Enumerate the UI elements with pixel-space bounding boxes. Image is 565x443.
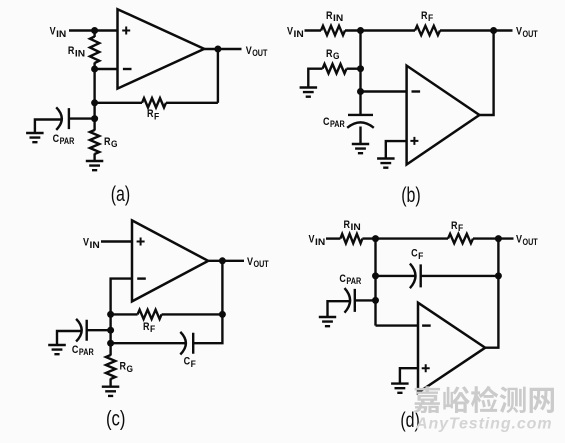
svg-text:AnyTesting.com: AnyTesting.com	[415, 416, 552, 433]
resistor RF (a)	[142, 98, 166, 107]
svg-text:VIN: VIN	[309, 234, 326, 247]
svg-text:RF: RF	[147, 108, 160, 121]
wire RIN bottom lead (a)	[93, 63, 95, 70]
wire RG right lead (b)	[347, 67, 361, 69]
svg-text:RIN: RIN	[344, 219, 361, 232]
wire left column (c)	[109, 314, 111, 343]
wire output (c)	[208, 260, 244, 262]
op-amp U1 (a)	[118, 9, 205, 88]
wire RF right lead (a)	[166, 102, 218, 104]
node output (a)	[214, 46, 221, 53]
wire CF left lead (d)	[376, 275, 416, 277]
svg-text:VOUT: VOUT	[246, 45, 268, 58]
resistor RG (b)	[323, 64, 347, 73]
resistor RG (a)	[90, 130, 99, 154]
capacitor CF (d)	[410, 264, 421, 289]
resistor RF (b)	[415, 26, 440, 35]
capacitor CPAR (b)	[347, 115, 374, 128]
wire down to RF row (a)	[93, 69, 95, 119]
resistor RF (c)	[138, 310, 162, 319]
node VIN-RIN junction (a)	[91, 27, 98, 34]
node summing top (b)	[357, 27, 364, 34]
svg-text:VIN: VIN	[287, 26, 304, 39]
svg-text:RF: RF	[421, 10, 434, 23]
wire summing column (b)	[359, 31, 361, 92]
op-amp U2 (b)	[407, 66, 480, 165]
wire RG bottom lead (a)	[93, 154, 95, 162]
ground noninverting (b)	[377, 159, 395, 168]
wire CPAR left lead (c)	[57, 331, 82, 345]
wire output feedback (b)	[479, 31, 493, 116]
wire CPAR top lead (b)	[359, 92, 361, 115]
ground CPAR (c)	[48, 345, 66, 354]
wire CF left lead (c)	[111, 342, 186, 344]
svg-text:RIN: RIN	[68, 45, 85, 58]
node output (d)	[495, 235, 502, 242]
capacitor CPAR (d)	[345, 288, 355, 313]
wire noninverting bend (d)	[400, 368, 418, 383]
plus sign U2 (b)	[410, 137, 418, 145]
wire output down to RF (a)	[217, 49, 219, 103]
wire inverting input (a)	[95, 68, 118, 70]
resistor RIN (b)	[321, 26, 345, 35]
wire RIN to RF (b)	[345, 29, 415, 31]
node summing top (d)	[372, 235, 379, 242]
wire RF left lead (a)	[95, 102, 142, 104]
ground CPAR (d)	[319, 317, 336, 326]
node CF left (d)	[372, 272, 379, 279]
wire CPAR left lead (d)	[328, 301, 350, 317]
node CF right (d)	[495, 272, 502, 279]
node CPAR junction (d)	[372, 297, 379, 304]
ground CPAR (a)	[26, 133, 43, 142]
wire RF to output (b)	[440, 29, 513, 31]
svg-text:(b): (b)	[401, 184, 421, 207]
wire summing column (d)	[374, 239, 376, 326]
minus sign U4 (d)	[422, 324, 431, 326]
wire RF to output (d)	[473, 237, 514, 239]
op-amp U3 (c)	[132, 220, 208, 301]
watermark chinese text	[414, 386, 554, 413]
ground RG (b)	[300, 88, 318, 97]
ground RG (c)	[102, 387, 120, 396]
wire CPAR left lead (a)	[35, 120, 62, 134]
op-amp U4 (d)	[418, 303, 485, 393]
svg-text:RF: RF	[143, 321, 156, 334]
svg-text:RG: RG	[120, 361, 134, 374]
wire CF right bend (c)	[193, 314, 222, 343]
wire RIN to RF (d)	[362, 237, 448, 239]
svg-text:CPAR: CPAR	[72, 344, 94, 357]
svg-text:VOUT: VOUT	[516, 234, 538, 247]
wire CPAR right lead (d)	[355, 299, 376, 301]
svg-text:RF: RF	[451, 220, 464, 233]
wire VIN to RIN (d)	[326, 237, 340, 239]
node output (c)	[219, 257, 226, 264]
node CF junction (c)	[107, 340, 114, 347]
svg-text:CPAR: CPAR	[53, 133, 75, 146]
node RF left (c)	[107, 311, 114, 318]
node RG junction (b)	[357, 65, 364, 72]
capacitor CPAR (a)	[56, 107, 69, 130]
wire RF right lead (c)	[162, 313, 223, 315]
svg-text:CPAR: CPAR	[339, 273, 361, 286]
svg-text:RG: RG	[326, 48, 340, 61]
svg-text:VIN: VIN	[50, 26, 67, 39]
wire RF left lead (c)	[111, 313, 138, 315]
node CPAR junction (c)	[107, 327, 114, 334]
wire output (a)	[204, 48, 241, 50]
node RF right (c)	[219, 311, 226, 318]
resistor RG (c)	[106, 355, 115, 379]
wire RG bottom lead (c)	[109, 379, 111, 387]
wire inverting input (d)	[376, 324, 419, 326]
wire inverting bend (c)	[111, 279, 132, 315]
node CPAR junction (a)	[91, 115, 98, 122]
wire CPAR bottom lead (b)	[359, 127, 361, 145]
minus sign U2 (b)	[412, 90, 421, 92]
capacitor CF (c)	[180, 332, 193, 355]
svg-text:CF: CF	[411, 248, 424, 261]
wire RG top lead (c)	[109, 343, 111, 355]
node feedback junction (a)	[91, 99, 98, 106]
wire VIN to noninverting input (a)	[69, 29, 118, 31]
minus sign U1 (a)	[123, 68, 132, 70]
wire RG top lead (a)	[93, 119, 95, 131]
resistor RF (d)	[448, 234, 473, 243]
plus sign U3 (c)	[137, 238, 145, 246]
wire CPAR right lead (c)	[87, 329, 111, 331]
wire VIN to noninverting (c)	[101, 240, 132, 242]
wire VIN to RIN (b)	[305, 29, 322, 31]
ground CPAR (b)	[352, 144, 369, 153]
plus sign U4 (d)	[422, 364, 430, 372]
svg-text:(c): (c)	[106, 407, 126, 430]
resistor RIN (d)	[340, 234, 362, 243]
node output (b)	[490, 27, 497, 34]
node inverting junction (b)	[357, 88, 364, 95]
svg-text:VOUT: VOUT	[247, 256, 269, 269]
wire RG left bend (b)	[308, 69, 322, 88]
plus sign U1 (a)	[122, 27, 130, 35]
resistor RIN (a)	[90, 37, 99, 64]
svg-text:CF: CF	[184, 356, 197, 369]
wire noninverting bend (b)	[386, 141, 407, 158]
wire inverting input (b)	[361, 90, 407, 92]
wire CF right lead (d)	[421, 275, 499, 277]
ground noninverting (d)	[391, 384, 409, 393]
svg-text:VOUT: VOUT	[516, 26, 538, 39]
wire RIN top lead (a)	[93, 31, 95, 38]
svg-text:CPAR: CPAR	[323, 116, 345, 129]
ground RG (a)	[86, 161, 104, 170]
minus sign U3 (c)	[137, 277, 146, 279]
svg-text:VIN: VIN	[83, 237, 100, 250]
svg-text:RG: RG	[104, 136, 118, 149]
svg-text:(a): (a)	[111, 183, 131, 206]
node RIN-inverting junction (a)	[91, 66, 98, 73]
wire output feedback (d)	[485, 239, 498, 348]
svg-text:RIN: RIN	[326, 10, 343, 23]
wire output down (c)	[221, 261, 223, 315]
capacitor CPAR (c)	[76, 319, 87, 342]
wire CPAR right lead (a)	[69, 117, 95, 119]
